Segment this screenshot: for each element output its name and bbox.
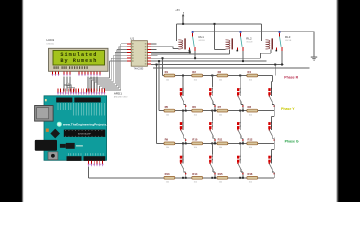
svg-text:R16: R16: [248, 172, 253, 176]
svg-text:R10: R10: [192, 138, 197, 142]
svg-text:10k: 10k: [249, 79, 252, 81]
svg-text:10k: 10k: [194, 79, 197, 81]
svg-text:10k: 10k: [219, 147, 222, 149]
svg-text:10k: 10k: [166, 147, 169, 149]
svg-text:R15: R15: [218, 172, 223, 176]
svg-text:10k: 10k: [166, 182, 169, 184]
svg-text:+5V: +5V: [175, 8, 180, 12]
svg-text:10k: 10k: [166, 79, 169, 81]
svg-text:Phase G: Phase G: [285, 140, 299, 144]
svg-text:10k: 10k: [219, 114, 222, 116]
svg-text:10k: 10k: [194, 182, 197, 184]
svg-text:G5CLE: G5CLE: [285, 40, 292, 42]
svg-text:R4: R4: [248, 70, 252, 74]
svg-text:10k: 10k: [249, 182, 252, 184]
svg-text:R8: R8: [248, 105, 252, 109]
svg-text:R6: R6: [192, 105, 196, 109]
svg-text:ARD1: ARD1: [114, 91, 122, 95]
svg-text:R2: R2: [192, 70, 196, 74]
svg-text:10k: 10k: [166, 114, 169, 116]
svg-text:R9: R9: [165, 138, 169, 142]
svg-text:R11: R11: [218, 138, 223, 142]
svg-text:U1: U1: [130, 36, 134, 40]
svg-text:Phase Y: Phase Y: [281, 107, 295, 111]
svg-text:ATMEGA328P: ATMEGA328P: [78, 132, 92, 135]
svg-text:R13: R13: [165, 172, 170, 176]
svg-text:RL2: RL2: [246, 37, 252, 41]
svg-text:R3: R3: [218, 70, 222, 74]
svg-text:10k: 10k: [249, 147, 252, 149]
svg-text:10k: 10k: [219, 79, 222, 81]
svg-text:ARDUINO UNO: ARDUINO UNO: [114, 96, 128, 99]
svg-text:RL3: RL3: [285, 35, 291, 39]
svg-text:R12: R12: [248, 138, 253, 142]
svg-text:R7: R7: [218, 105, 222, 109]
svg-text:10k: 10k: [194, 147, 197, 149]
svg-text:Phase R: Phase R: [284, 75, 298, 79]
svg-text:10k: 10k: [219, 182, 222, 184]
svg-text:10k: 10k: [194, 114, 197, 116]
svg-text:LM016L: LM016L: [47, 44, 55, 46]
svg-text:10k: 10k: [249, 114, 252, 116]
svg-text:RL1: RL1: [199, 35, 205, 39]
svg-text:R1: R1: [165, 70, 169, 74]
svg-text:By Rumesh: By Rumesh: [60, 58, 97, 64]
svg-text:G5CLE: G5CLE: [199, 40, 206, 42]
svg-text:74HC595: 74HC595: [134, 69, 144, 71]
svg-text:www.TheEngineeringProjects.com: www.TheEngineeringProjects.com: [62, 122, 114, 126]
svg-text:LCD1: LCD1: [47, 38, 55, 42]
svg-text:R14: R14: [192, 172, 197, 176]
svg-text:G5CLE: G5CLE: [246, 42, 253, 44]
svg-text:R5: R5: [165, 105, 169, 109]
